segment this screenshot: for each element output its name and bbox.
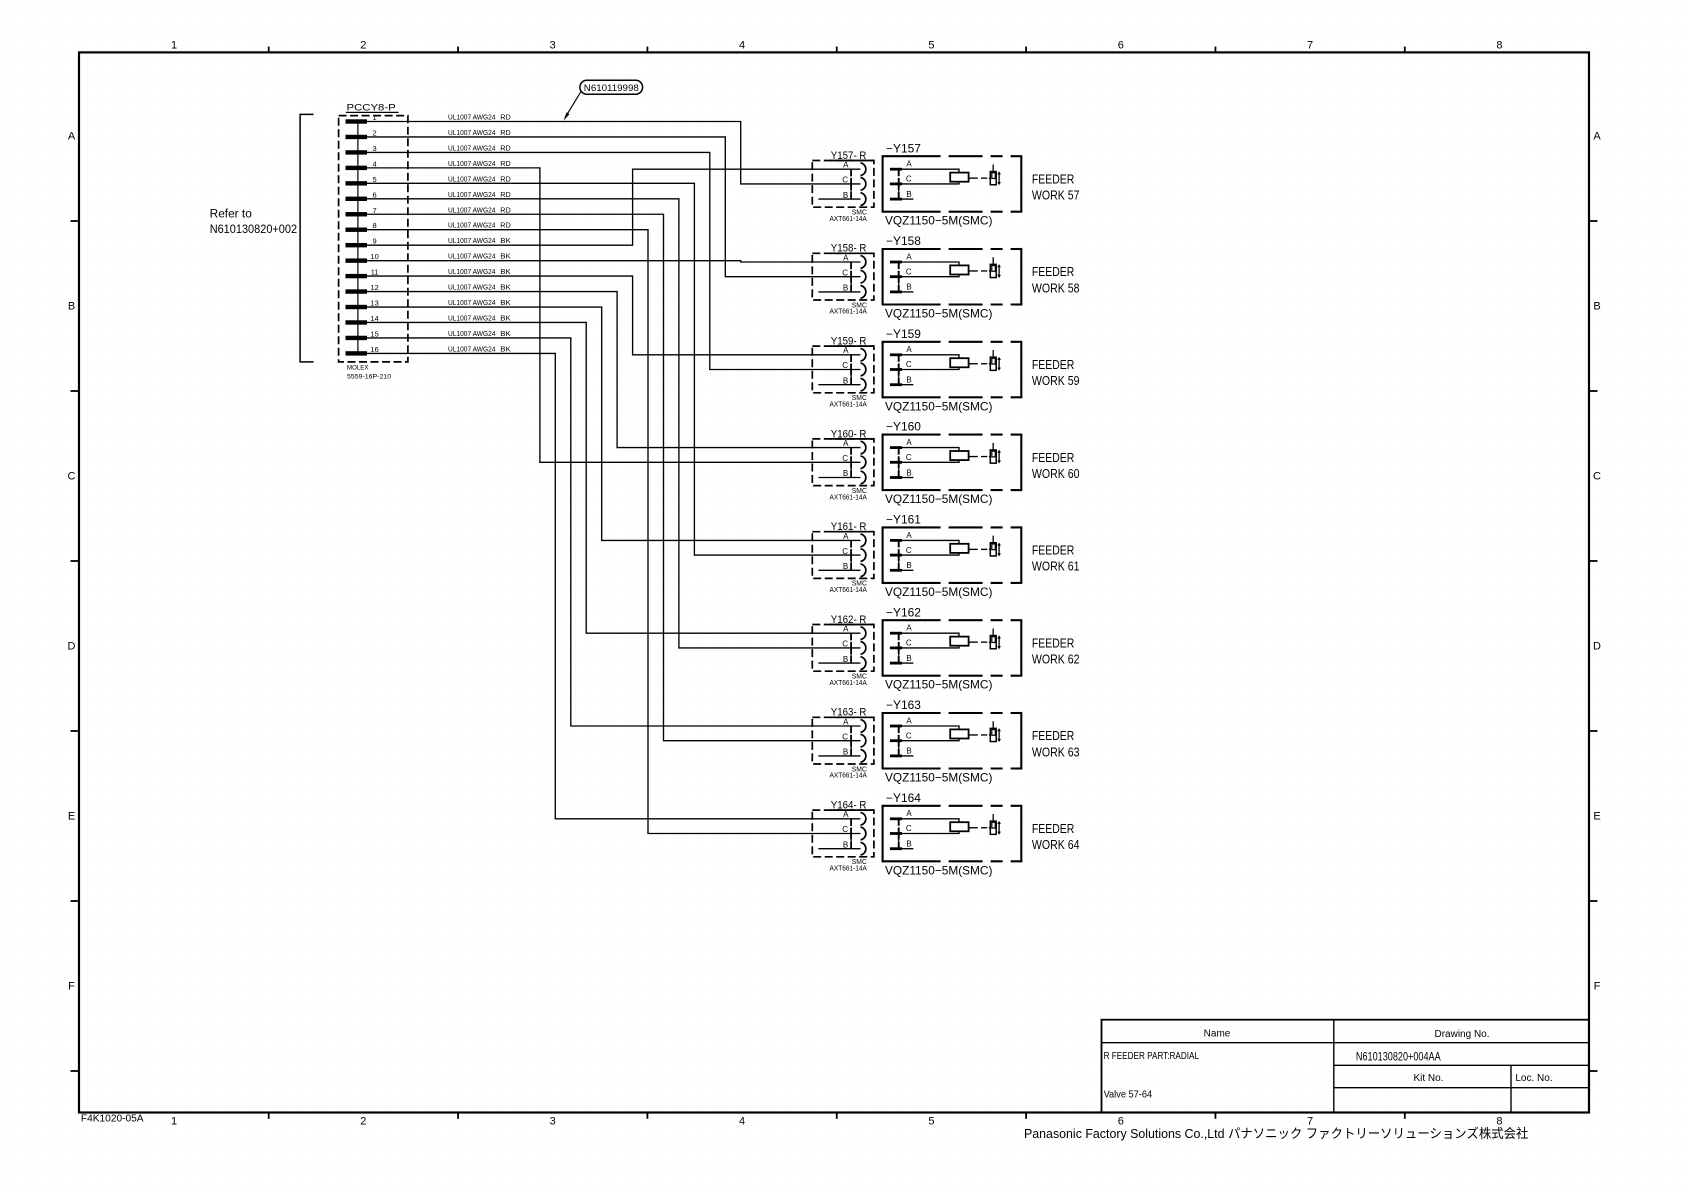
pilot valve symbol of -Y160 [969, 443, 1001, 464]
svg-text:Refer to: Refer to [210, 209, 252, 221]
svg-text:6: 6 [1118, 39, 1124, 51]
svg-text:UL1007 AWG24: UL1007 AWG24 [448, 159, 496, 168]
svg-text:15: 15 [370, 329, 378, 338]
svg-text:C: C [842, 640, 848, 649]
valve connector Y164-R (SMC AXT661-14A) [812, 800, 874, 873]
svg-text:UL1007 AWG24: UL1007 AWG24 [448, 221, 496, 230]
value label VQZ1150-5M(SMC) of -Y162 [885, 678, 992, 692]
svg-text:N610119998: N610119998 [584, 83, 639, 94]
pin 1 of PCCY8-P [346, 113, 377, 124]
svg-text:10: 10 [370, 252, 378, 261]
svg-text:BK: BK [500, 344, 511, 353]
svg-text:−Y159: −Y159 [886, 329, 921, 341]
svg-text:Y161- R: Y161- R [831, 521, 867, 533]
load label FEEDER WORK 64 [1032, 821, 1080, 852]
solenoid valve -Y164 (VQZ1150-5M SMC) [882, 793, 1023, 861]
svg-text:−Y163: −Y163 [886, 700, 921, 712]
valve connector Y161-R (SMC AXT661-14A) [812, 521, 874, 594]
svg-text:−Y162: −Y162 [886, 607, 921, 619]
svg-text:VQZ1150−5M(SMC): VQZ1150−5M(SMC) [885, 863, 992, 877]
svg-text:B: B [906, 190, 911, 199]
svg-text:BK: BK [500, 313, 511, 322]
svg-text:B: B [843, 376, 848, 385]
svg-text:FEEDER: FEEDER [1032, 543, 1074, 558]
svg-text:WORK 57: WORK 57 [1032, 188, 1080, 203]
wire pin 4 to Y160 C (RD) [367, 159, 861, 462]
value label VQZ1150-5M(SMC) of -Y161 [885, 585, 992, 599]
pilot valve symbol of -Y161 [969, 536, 1001, 557]
load label FEEDER WORK 63 [1032, 728, 1080, 759]
pin 12 of PCCY8-P [346, 283, 379, 294]
valve connector Y157-R (SMC AXT661-14A) [812, 150, 874, 223]
svg-text:WORK 59: WORK 59 [1032, 373, 1080, 388]
svg-text:AXT661-14A: AXT661-14A [830, 307, 867, 316]
svg-text:4: 4 [373, 159, 377, 168]
svg-text:A: A [906, 531, 912, 540]
svg-text:BK: BK [500, 283, 511, 292]
value label VQZ1150-5M(SMC) of -Y164 [885, 863, 992, 877]
svg-text:A: A [906, 345, 912, 354]
svg-text:AXT661-14A: AXT661-14A [830, 492, 867, 501]
svg-text:C: C [842, 268, 848, 277]
svg-text:B: B [843, 655, 848, 664]
svg-text:E: E [68, 811, 75, 823]
svg-text:RD: RD [500, 205, 511, 214]
svg-text:Name: Name [1204, 1029, 1231, 1040]
pin 14 of PCCY8-P [346, 314, 379, 325]
sheet code F4K1020-05A [81, 1114, 144, 1125]
svg-text:A: A [906, 716, 912, 725]
svg-text:B: B [1593, 301, 1600, 313]
svg-text:Y163- R: Y163- R [831, 707, 867, 719]
wire pin 5 to Y161 C (RD) [367, 174, 861, 555]
pin 7 of PCCY8-P [346, 206, 377, 217]
solenoid coil of -Y163 [950, 729, 968, 738]
pin 15 of PCCY8-P [346, 329, 379, 340]
svg-text:AXT661-14A: AXT661-14A [830, 678, 867, 687]
svg-text:A: A [906, 252, 912, 261]
load label FEEDER WORK 62 [1032, 635, 1080, 666]
svg-text:UL1007 AWG24: UL1007 AWG24 [448, 298, 496, 307]
svg-text:AXT661-14A: AXT661-14A [830, 400, 867, 409]
company name [1024, 1126, 1528, 1141]
svg-text:A: A [906, 809, 912, 818]
svg-text:A: A [843, 161, 849, 170]
svg-text:N610130820+004AA: N610130820+004AA [1356, 1050, 1441, 1064]
svg-text:Y162- R: Y162- R [831, 614, 867, 626]
solenoid valve -Y163 (VQZ1150-5M SMC) [882, 700, 1023, 768]
connector PCCY8-P (MOLEX 5559-16P-210) [339, 103, 408, 381]
svg-text:C: C [842, 732, 848, 741]
valve connector Y158-R (SMC AXT661-14A) [812, 243, 874, 316]
svg-text:C: C [842, 454, 848, 463]
value label VQZ1150-5M(SMC) of -Y157 [885, 214, 992, 228]
svg-text:A: A [906, 624, 912, 633]
svg-text:BK: BK [500, 329, 511, 338]
svg-text:C: C [68, 471, 76, 483]
svg-text:A: A [906, 438, 912, 447]
svg-text:1: 1 [171, 39, 177, 51]
svg-text:VQZ1150−5M(SMC): VQZ1150−5M(SMC) [885, 585, 992, 599]
svg-text:RD: RD [500, 143, 511, 152]
svg-text:−Y161: −Y161 [886, 515, 921, 527]
svg-text:5559-16P-210: 5559-16P-210 [347, 373, 391, 380]
svg-text:C: C [906, 546, 912, 555]
svg-text:WORK 62: WORK 62 [1032, 652, 1080, 667]
svg-text:UL1007 AWG24: UL1007 AWG24 [448, 283, 496, 292]
svg-text:A: A [843, 346, 849, 355]
svg-text:4: 4 [739, 39, 745, 51]
svg-text:FEEDER: FEEDER [1032, 821, 1074, 836]
pin 9 of PCCY8-P [346, 237, 377, 248]
svg-text:UL1007 AWG24: UL1007 AWG24 [448, 267, 496, 276]
value label VQZ1150-5M(SMC) of -Y160 [885, 492, 992, 506]
svg-text:D: D [68, 641, 76, 653]
svg-text:B: B [906, 747, 911, 756]
balloon label N610119998 [564, 80, 643, 120]
svg-text:F: F [68, 981, 75, 993]
svg-text:Y158- R: Y158- R [831, 243, 867, 255]
svg-text:D: D [1593, 641, 1601, 653]
valve connector Y163-R (SMC AXT661-14A) [812, 707, 874, 780]
solenoid valve -Y159 (VQZ1150-5M SMC) [882, 329, 1023, 397]
wire pin 3 to Y159 C (RD) [367, 143, 861, 369]
wire pin 7 to Y163 C (RD) [367, 205, 861, 740]
svg-text:UL1007 AWG24: UL1007 AWG24 [448, 205, 496, 214]
svg-text:C: C [906, 731, 912, 740]
svg-text:RD: RD [500, 159, 511, 168]
solenoid coil of -Y159 [950, 358, 968, 367]
svg-text:UL1007 AWG24: UL1007 AWG24 [448, 113, 496, 122]
svg-text:Y160- R: Y160- R [831, 428, 867, 440]
svg-text:A: A [906, 160, 912, 169]
svg-text:VQZ1150−5M(SMC): VQZ1150−5M(SMC) [885, 307, 992, 321]
pin 13 of PCCY8-P [346, 299, 379, 310]
svg-text:B: B [843, 284, 848, 293]
svg-text:C: C [1593, 471, 1601, 483]
solenoid valve -Y160 (VQZ1150-5M SMC) [882, 422, 1023, 490]
svg-text:C: C [906, 267, 912, 276]
svg-text:MOLEX: MOLEX [347, 365, 369, 372]
svg-text:Drawing No.: Drawing No. [1434, 1029, 1489, 1040]
svg-text:A: A [843, 253, 849, 262]
value label VQZ1150-5M(SMC) of -Y159 [885, 399, 992, 413]
svg-text:Loc. No.: Loc. No. [1515, 1073, 1552, 1084]
svg-text:A: A [68, 131, 76, 143]
svg-text:UL1007 AWG24: UL1007 AWG24 [448, 252, 496, 261]
svg-text:WORK 58: WORK 58 [1032, 280, 1080, 295]
pin 4 of PCCY8-P [346, 159, 377, 170]
svg-text:11: 11 [371, 268, 379, 277]
svg-text:A: A [843, 717, 849, 726]
svg-text:12: 12 [370, 283, 378, 292]
solenoid coil of -Y158 [950, 265, 968, 274]
svg-text:F4K1020-05A: F4K1020-05A [81, 1114, 144, 1125]
svg-text:FEEDER: FEEDER [1032, 635, 1074, 650]
load label FEEDER WORK 57 [1032, 171, 1080, 202]
pilot valve symbol of -Y159 [969, 350, 1001, 371]
wire pin 16 to Y164 A (BK) [367, 344, 861, 818]
solenoid coil of -Y161 [950, 544, 968, 553]
title block [1102, 1020, 1590, 1113]
svg-text:B: B [843, 840, 848, 849]
svg-text:RD: RD [500, 113, 511, 122]
svg-text:B: B [906, 283, 911, 292]
svg-text:BK: BK [500, 236, 511, 245]
svg-text:FEEDER: FEEDER [1032, 728, 1074, 743]
svg-text:A: A [843, 532, 849, 541]
svg-text:FEEDER: FEEDER [1032, 450, 1074, 465]
svg-text:3: 3 [550, 1116, 556, 1128]
pilot valve symbol of -Y162 [969, 628, 1001, 649]
svg-text:UL1007 AWG24: UL1007 AWG24 [448, 329, 496, 338]
svg-text:UL1007 AWG24: UL1007 AWG24 [448, 344, 496, 353]
pilot valve symbol of -Y157 [969, 164, 1001, 185]
svg-text:1: 1 [373, 113, 377, 122]
svg-text:5: 5 [928, 39, 934, 51]
svg-text:B: B [906, 840, 911, 849]
svg-text:RD: RD [500, 128, 511, 137]
svg-text:VQZ1150−5M(SMC): VQZ1150−5M(SMC) [885, 399, 992, 413]
svg-text:B: B [843, 562, 848, 571]
svg-text:8: 8 [1496, 39, 1502, 51]
svg-text:F: F [1594, 981, 1601, 993]
wire pin 12 to Y160 A (BK) [367, 283, 861, 448]
svg-text:A: A [843, 439, 849, 448]
pilot valve symbol of -Y158 [969, 257, 1001, 278]
solenoid coil of -Y164 [950, 822, 968, 831]
svg-text:9: 9 [373, 237, 377, 246]
drawing frame border [79, 52, 1589, 1112]
svg-text:B: B [843, 469, 848, 478]
svg-text:A: A [843, 810, 849, 819]
svg-text:E: E [1593, 811, 1600, 823]
wire pin 2 to Y158 C (RD) [367, 128, 861, 277]
solenoid coil of -Y162 [950, 637, 968, 646]
svg-text:C: C [906, 175, 912, 184]
svg-text:WORK 60: WORK 60 [1032, 466, 1080, 481]
wire pin 8 to Y164 C (RD) [367, 221, 861, 834]
svg-text:1: 1 [171, 1116, 177, 1128]
svg-text:UL1007 AWG24: UL1007 AWG24 [448, 190, 496, 199]
wire pin 15 to Y163 A (BK) [367, 329, 861, 726]
svg-text:A: A [1593, 131, 1601, 143]
svg-text:B: B [906, 468, 911, 477]
svg-text:Kit No.: Kit No. [1413, 1073, 1443, 1084]
svg-text:UL1007 AWG24: UL1007 AWG24 [448, 143, 496, 152]
svg-text:UL1007 AWG24: UL1007 AWG24 [448, 174, 496, 183]
valve connector Y162-R (SMC AXT661-14A) [812, 614, 874, 687]
svg-text:UL1007 AWG24: UL1007 AWG24 [448, 313, 496, 322]
svg-text:Valve 57-64: Valve 57-64 [1104, 1089, 1153, 1101]
pin 3 of PCCY8-P [346, 144, 377, 155]
pilot valve symbol of -Y163 [969, 721, 1001, 742]
reference note bracket: Refer to N610130820+002 [210, 114, 314, 362]
svg-text:2: 2 [360, 39, 366, 51]
wire pin 13 to Y161 A (BK) [367, 298, 861, 540]
svg-text:B: B [843, 191, 848, 200]
load label FEEDER WORK 60 [1032, 450, 1080, 481]
svg-text:C: C [842, 361, 848, 370]
svg-text:4: 4 [739, 1116, 745, 1128]
svg-text:VQZ1150−5M(SMC): VQZ1150−5M(SMC) [885, 214, 992, 228]
svg-text:−Y158: −Y158 [886, 236, 921, 248]
svg-text:−Y160: −Y160 [886, 422, 921, 434]
solenoid coil of -Y157 [950, 173, 968, 182]
svg-text:RD: RD [500, 174, 511, 183]
pin 16 of PCCY8-P [346, 345, 379, 356]
svg-text:UL1007 AWG24: UL1007 AWG24 [448, 128, 496, 137]
svg-text:B: B [906, 654, 911, 663]
svg-text:Panasonic Factory Solutions Co: Panasonic Factory Solutions Co.,Ltd パナソニ… [1024, 1126, 1528, 1141]
value label VQZ1150-5M(SMC) of -Y158 [885, 307, 992, 321]
svg-text:B: B [906, 376, 911, 385]
svg-text:WORK 64: WORK 64 [1032, 837, 1080, 852]
svg-text:RD: RD [500, 221, 511, 230]
svg-text:WORK 61: WORK 61 [1032, 559, 1080, 574]
svg-text:R FEEDER PART:RADIAL: R FEEDER PART:RADIAL [1104, 1050, 1200, 1062]
wire pin 9 to Y157 A (BK) [367, 169, 861, 245]
load label FEEDER WORK 58 [1032, 264, 1080, 295]
svg-text:AXT661-14A: AXT661-14A [830, 214, 867, 223]
svg-text:FEEDER: FEEDER [1032, 264, 1074, 279]
svg-text:FEEDER: FEEDER [1032, 171, 1074, 186]
svg-text:WORK 63: WORK 63 [1032, 744, 1080, 759]
svg-text:FEEDER: FEEDER [1032, 357, 1074, 372]
svg-text:Y157- R: Y157- R [831, 150, 867, 162]
svg-text:VQZ1150−5M(SMC): VQZ1150−5M(SMC) [885, 771, 992, 785]
load label FEEDER WORK 61 [1032, 543, 1080, 574]
wire pin 14 to Y162 A (BK) [367, 313, 861, 633]
svg-text:8: 8 [373, 221, 377, 230]
value label VQZ1150-5M(SMC) of -Y163 [885, 771, 992, 785]
svg-text:Y164- R: Y164- R [831, 800, 867, 812]
svg-text:14: 14 [370, 314, 378, 323]
svg-text:VQZ1150−5M(SMC): VQZ1150−5M(SMC) [885, 492, 992, 506]
svg-text:VQZ1150−5M(SMC): VQZ1150−5M(SMC) [885, 678, 992, 692]
svg-text:BK: BK [500, 298, 511, 307]
wire pin 6 to Y162 C (RD) [367, 190, 861, 648]
svg-text:C: C [906, 453, 912, 462]
svg-text:C: C [906, 824, 912, 833]
svg-text:3: 3 [550, 39, 556, 51]
solenoid valve -Y158 (VQZ1150-5M SMC) [882, 236, 1023, 304]
svg-text:C: C [906, 639, 912, 648]
svg-text:−Y157: −Y157 [886, 143, 921, 155]
svg-text:3: 3 [373, 144, 377, 153]
pin 10 of PCCY8-P [346, 252, 379, 263]
wire pin 11 to Y159 A (BK) [367, 267, 861, 355]
svg-text:AXT661-14A: AXT661-14A [830, 585, 867, 594]
svg-text:13: 13 [370, 299, 378, 308]
svg-text:BK: BK [500, 267, 511, 276]
svg-text:16: 16 [370, 345, 378, 354]
pin 5 of PCCY8-P [346, 175, 377, 186]
load label FEEDER WORK 59 [1032, 357, 1080, 388]
svg-text:2: 2 [373, 128, 377, 137]
svg-text:7: 7 [373, 206, 377, 215]
pin 11 of PCCY8-P [346, 268, 379, 279]
solenoid coil of -Y160 [950, 451, 968, 460]
svg-text:AXT661-14A: AXT661-14A [830, 771, 867, 780]
solenoid valve -Y161 (VQZ1150-5M SMC) [882, 515, 1023, 583]
svg-text:N610130820+002: N610130820+002 [210, 224, 297, 236]
svg-text:5: 5 [928, 1116, 934, 1128]
valve connector Y159-R (SMC AXT661-14A) [812, 336, 874, 409]
connector PCCY8-P pin linkage line [357, 122, 359, 354]
svg-text:B: B [68, 301, 75, 313]
svg-text:AXT661-14A: AXT661-14A [830, 864, 867, 873]
svg-text:C: C [842, 825, 848, 834]
solenoid valve -Y157 (VQZ1150-5M SMC) [882, 143, 1023, 211]
wire pin 1 to Y157 C (RD) [367, 113, 861, 184]
pin 8 of PCCY8-P [346, 221, 377, 232]
svg-text:7: 7 [1307, 39, 1313, 51]
svg-text:C: C [842, 176, 848, 185]
pin 2 of PCCY8-P [346, 128, 377, 139]
svg-text:6: 6 [373, 190, 377, 199]
svg-text:Y159- R: Y159- R [831, 336, 867, 348]
svg-text:2: 2 [360, 1116, 366, 1128]
svg-text:−Y164: −Y164 [886, 793, 922, 805]
solenoid valve -Y162 (VQZ1150-5M SMC) [882, 607, 1023, 675]
svg-text:UL1007 AWG24: UL1007 AWG24 [448, 236, 496, 245]
pin 6 of PCCY8-P [346, 190, 377, 201]
pilot valve symbol of -Y164 [969, 814, 1001, 835]
svg-text:B: B [906, 561, 911, 570]
wire pin 10 to Y158 A (BK) [367, 252, 861, 262]
svg-text:RD: RD [500, 190, 511, 199]
valve connector Y160-R (SMC AXT661-14A) [812, 428, 874, 501]
svg-text:C: C [842, 547, 848, 556]
svg-text:BK: BK [500, 252, 511, 261]
svg-text:A: A [843, 625, 849, 634]
svg-text:5: 5 [373, 175, 377, 184]
svg-text:C: C [906, 360, 912, 369]
svg-text:B: B [843, 748, 848, 757]
